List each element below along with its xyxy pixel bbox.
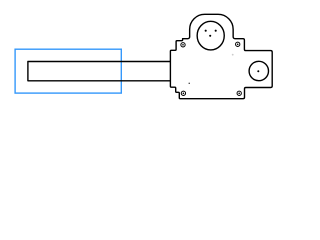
shaft — [28, 62, 171, 81]
bearing circle in dome — [197, 21, 224, 50]
right boss circle — [249, 61, 268, 80]
screw hole top-left — [181, 43, 185, 47]
motor body outline — [170, 14, 272, 98]
selection box (blue) — [15, 49, 121, 93]
screw hole bottom-left — [181, 91, 185, 95]
screw hole bottom-right — [237, 91, 241, 95]
screw hole top-right — [236, 42, 240, 46]
dot right — [215, 30, 217, 32]
faint speck — [232, 54, 234, 56]
dot bottom — [209, 35, 211, 37]
dot left — [205, 30, 207, 32]
small speck — [189, 83, 190, 84]
